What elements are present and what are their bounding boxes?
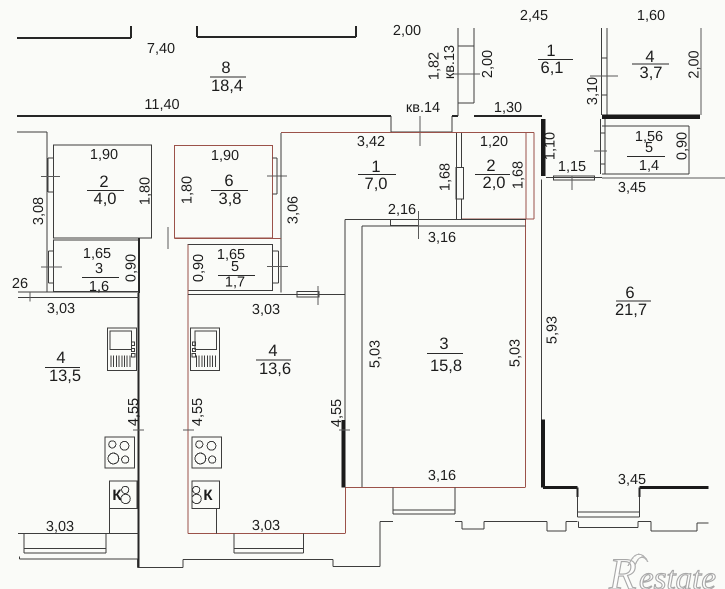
svg-text:3,16: 3,16 [428,468,456,484]
dim line 3,45 top [602,177,725,179]
group: ground line center [455,521,462,523]
wall room1-room2 right upper [461,133,463,168]
fraction line room 6/3,8 [211,190,248,192]
svg-text:4,0: 4,0 [94,190,117,208]
room 2 (4,0) box [54,145,152,238]
east wall thick part [541,420,545,488]
svg-text:estate: estate [639,561,716,589]
wall east of room 6 [280,133,282,293]
counter line right [216,509,218,534]
svg-text:3,06: 3,06 [286,196,302,224]
door cross tick r [267,266,288,268]
tick 3,03 right [317,286,319,305]
fraction line room 4/13,5 [45,367,80,369]
svg-text:1,65: 1,65 [83,246,111,262]
group: balcony room 3 [392,488,394,515]
svg-text:0,90: 0,90 [675,132,691,160]
svg-text:1,15: 1,15 [558,159,586,175]
window cross tick [590,75,618,77]
svg-text:0,90: 0,90 [124,254,140,282]
top wall recess right rise [451,116,453,132]
svg-text:8: 8 [221,59,230,77]
room 5 (1,4) bottom line [602,173,689,175]
svg-text:4: 4 [56,349,65,367]
dim line 2,00 vertical [700,28,702,115]
outer wall left vertical [46,132,48,292]
room6 window tick top [273,157,278,159]
top wall short span [452,115,458,117]
svg-text:3,10: 3,10 [585,77,601,105]
bottom wall right of balcony door [640,486,709,489]
svg-text:1,30: 1,30 [494,100,522,116]
group: boiler K left [109,481,136,508]
wall kitchen-room3 thin part [344,220,346,421]
door sill hall-room3 [391,220,419,226]
window tick 2 [602,94,608,96]
window bump outer line [47,158,49,192]
door bump bottom tick r [273,282,279,284]
dimension bracket 7,40 right tick [130,26,132,38]
fraction line room 1/6,1 [538,59,573,61]
door bump outer line left [48,251,50,283]
svg-text:5,93: 5,93 [545,316,561,344]
svg-text:3,8: 3,8 [219,190,242,208]
room6 window bump line [276,158,278,194]
кв.13 wall tick upper [458,45,474,47]
door bump room1-room2 [456,168,464,200]
kitchen left top wall [18,297,139,299]
bracket left tick [196,26,198,37]
tick 4,55 right b [339,429,350,431]
кв.13 wall cross tick [452,73,480,75]
svg-text:R: R [608,549,637,589]
svg-text:13,6: 13,6 [259,360,291,378]
red outline kitchen left [187,245,189,534]
svg-text:3,16: 3,16 [428,230,456,246]
window tick b [601,163,606,165]
svg-text:3,7: 3,7 [640,64,663,82]
svg-text:5,03: 5,03 [508,339,524,367]
svg-text:1,80: 1,80 [180,176,196,204]
svg-text:3,03: 3,03 [47,301,75,317]
fraction line room 2/4,0 [87,190,124,192]
svg-text:2,00: 2,00 [393,23,421,39]
window tick 1 [602,57,608,59]
svg-text:кв.13: кв.13 [442,45,458,79]
svg-text:4,55: 4,55 [126,398,142,426]
svg-text:3,03: 3,03 [46,519,74,535]
fraction line room 4/13,6 [256,359,291,361]
door bump bottom tick [49,282,54,284]
svg-text:2,00: 2,00 [687,50,703,78]
svg-text:7,0: 7,0 [365,175,388,193]
door sill kitchen right [297,292,319,298]
tick 3,03 left [29,292,31,302]
svg-text:1,80: 1,80 [138,177,154,205]
hall top line to room5 [546,177,602,179]
tick between boxes [167,227,169,249]
top wall right span [474,115,542,117]
svg-text:1,60: 1,60 [637,8,665,24]
svg-text:3: 3 [439,335,448,353]
svg-text:1,7: 1,7 [225,275,245,291]
door cross tick left [41,266,62,268]
window tick a [601,132,606,134]
wall kitchen-room3 thick part [342,420,346,488]
room6 window cross tick [267,175,287,177]
dim tick below кв.14 [419,116,421,146]
door sill right hall [554,176,595,180]
red outline kitchen bottom [188,533,346,535]
red room2 bottom edge [462,218,535,220]
svg-text:21,7: 21,7 [615,301,647,319]
outer wall top-left step [17,131,47,133]
thick wall bar above room 5 [602,115,700,120]
room 3 (1,6) box [54,240,140,292]
svg-text:3,42: 3,42 [357,134,385,150]
east wall thin [541,180,543,420]
svg-text:1,6: 1,6 [89,279,109,295]
group: boiler K right [192,481,219,508]
shaft wall left lower [138,293,140,568]
red outline right lower [525,219,527,487]
group: sink unit left [108,328,137,370]
svg-text:2,00: 2,00 [480,50,496,78]
room 3 left edge [361,226,363,487]
svg-text:2: 2 [99,173,108,191]
svg-text:13,5: 13,5 [49,367,81,385]
east thick wall bar 1,10 [541,119,546,176]
window bump bottom tick [48,191,54,193]
room6 window tick bottom [273,193,278,195]
fraction line room 5/1,4 [627,156,665,158]
svg-text:18,4: 18,4 [211,77,243,95]
svg-text:15,8: 15,8 [430,357,462,375]
group: balcony right kitchen [233,534,235,554]
dimension bracket 8/18,4 line [197,36,356,38]
fraction line room 6/21,7 [616,300,651,302]
top wall recess bottom [391,131,452,133]
red connector below room6 [175,238,282,240]
shaft wall left thick part [138,238,140,293]
svg-text:2: 2 [486,157,495,175]
tick 4,55 left [133,429,144,431]
room 6 (3,8) red box [175,146,273,239]
kitchen right top wall [188,294,345,296]
red room2 right edge [525,133,527,219]
svg-text:6: 6 [224,172,233,190]
svg-text:1,90: 1,90 [211,148,239,164]
top wall main span [17,115,391,117]
fraction line room 8 [210,76,246,78]
red outline top [281,132,534,134]
svg-text:3,08: 3,08 [31,197,47,225]
wall room1-room2 right lower [461,199,463,220]
fraction line room 3/15,8 [427,353,463,355]
svg-text:1,82: 1,82 [427,52,443,80]
svg-text:1,68: 1,68 [438,163,454,191]
group: stove right [192,437,222,468]
svg-text:2,16: 2,16 [388,202,416,218]
watermark Restate [608,549,716,589]
svg-text:26: 26 [12,276,28,292]
svg-text:4,55: 4,55 [190,398,206,426]
svg-text:4,55: 4,55 [329,399,345,427]
svg-text:1,10: 1,10 [543,132,559,160]
svg-text:3,45: 3,45 [618,472,646,488]
svg-text:3,03: 3,03 [252,518,280,534]
group: sink unit right [190,328,219,370]
svg-text:6: 6 [625,284,634,302]
svg-text:5: 5 [645,140,653,156]
group: ground line left [19,557,21,559]
svg-text:6,1: 6,1 [541,59,564,77]
fraction line room 4/3,7 [632,63,669,65]
fraction line room 2/2,0 [475,174,510,176]
svg-text:3: 3 [95,261,103,277]
кв.13 wall left line [457,28,459,116]
window wall left line (room 4 top) [601,28,603,115]
group: balcony left kitchen [23,534,25,554]
fraction line room 1/7,0 [358,174,396,176]
svg-text:11,40: 11,40 [144,97,179,113]
tick 4,55 right a [183,429,194,431]
room 5 window wall inner [604,119,606,174]
door bump top tick [49,250,54,252]
svg-text:2,0: 2,0 [483,174,506,192]
left rooms bottom line [18,291,139,293]
bottom wall left of balcony door [543,486,578,489]
svg-text:4: 4 [268,342,277,360]
кв.13 wall tick lower [458,102,474,104]
group: ground line right [578,522,580,528]
group: stove left [105,437,135,468]
window cross tick c [594,150,607,152]
window wall right line [606,28,608,115]
kitchen left bottom wall [18,533,139,535]
red outline right upper [533,133,535,220]
fraction line room 3/1,6 [82,277,119,279]
svg-text:1: 1 [546,42,555,60]
svg-text:2,45: 2,45 [520,8,548,24]
wall hall-room3 upper line [345,219,526,221]
top wall recess left drop [390,116,392,132]
svg-text:3,03: 3,03 [252,302,280,318]
door bump top tick r [273,250,279,252]
svg-text:0,90: 0,90 [191,254,207,282]
svg-text:5,03: 5,03 [368,340,384,368]
svg-text:7,40: 7,40 [147,41,175,57]
svg-text:3,45: 3,45 [618,180,646,196]
tick at 1,15 [571,176,573,190]
red outline room3 bottom [346,487,526,489]
room 5 (1,4) top line [602,125,689,127]
svg-text:К: К [203,487,213,504]
group: balcony room 6 right [577,488,579,498]
кв.13 wall right line [473,28,475,103]
svg-text:1,90: 1,90 [90,147,118,163]
room 5 window wall outer [600,119,602,174]
svg-text:1,20: 1,20 [480,134,508,150]
fraction line room 5/1,7 [218,275,255,277]
bracket right tick [355,26,357,37]
svg-text:5: 5 [231,259,239,275]
svg-text:К: К [112,487,122,504]
door bump outer right [278,251,280,283]
svg-text:1,68: 1,68 [511,161,527,189]
dim tick 2,16/3,16 [418,211,420,239]
wall room1-room2 left line [456,133,458,220]
svg-text:1,4: 1,4 [639,158,659,174]
red outline kitchen right [345,488,347,534]
wall hall-room3 lower line [362,225,526,227]
room 5 (1,4) right edge [688,126,690,174]
window bump top tick [48,157,54,159]
svg-text:1: 1 [371,158,380,176]
room 5 (1,7) box [188,245,273,291]
svg-text:кв.14: кв.14 [406,100,440,116]
dimension bracket 7,40 line [17,37,131,39]
counter line left [108,509,110,534]
window cross tick left [41,176,60,178]
